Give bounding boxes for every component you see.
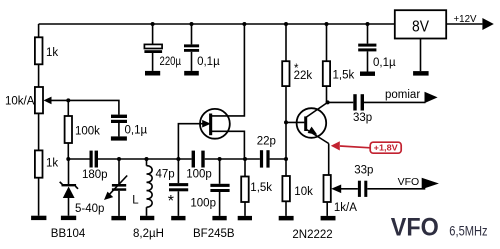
node trimmer junction [117, 157, 121, 161]
node 100p shunt junction [218, 157, 222, 161]
svg-text:1k/A: 1k/A [334, 202, 357, 214]
svg-text:22p: 22p [257, 136, 276, 148]
wire resonator line seg4 [270, 158, 286, 160]
svg-text:1k: 1k [46, 47, 58, 59]
capacitor C 100p (shunt) [190, 159, 229, 216]
node rail drain [242, 22, 246, 26]
wire VFO out [367, 188, 425, 190]
svg-text:VFO: VFO [398, 176, 420, 188]
wire resonator line seg3 [205, 158, 260, 160]
wire emitter down [328, 144, 330, 176]
wire 100k to resonator node [67, 143, 69, 159]
ground (1.5k source) [238, 216, 252, 220]
svg-text:100k: 100k [75, 126, 100, 138]
regulator U 8V [395, 10, 446, 71]
node rail 220µ [151, 22, 155, 26]
svg-text:100p: 100p [186, 169, 212, 181]
node rail 22k [284, 22, 288, 26]
svg-text:0,1µ: 0,1µ [373, 57, 396, 69]
wire top supply rail [39, 23, 395, 25]
capacitor C 0.1µ (rail right) [358, 24, 396, 72]
ground (220µ) [145, 71, 160, 76]
annotation +1,8V red [331, 141, 401, 153]
ground (trimmer) [111, 216, 126, 220]
capacitor C 33p (VFO out) [354, 165, 373, 197]
svg-text:*: * [168, 193, 174, 210]
arrow pomiar output [425, 92, 438, 103]
resistor R 1.5k (source) [241, 159, 272, 216]
wire pot to lower 1k [38, 113, 40, 150]
ground (10k) [279, 216, 294, 221]
node rail 0.1µ right [366, 22, 370, 26]
wire wiper to 100k [67, 100, 69, 116]
svg-text:33p: 33p [353, 112, 372, 124]
wire base [286, 121, 304, 123]
svg-text:1,5k: 1,5k [333, 70, 355, 82]
capacitor C 100p (series) [186, 151, 212, 181]
wire lower 1k to ground [38, 178, 40, 216]
svg-text:pomiar: pomiar [385, 89, 420, 101]
svg-text:0,1µ: 0,1µ [125, 125, 148, 137]
resistor R 10k [282, 176, 313, 216]
svg-text:+12V: +12V [454, 13, 477, 25]
node resonator left junction [66, 157, 70, 161]
svg-text:8V: 8V [412, 18, 429, 35]
wire base network vertical [285, 86, 287, 176]
ground (0.1µ bias) [111, 136, 127, 140]
JFET U BF245B [200, 24, 244, 159]
svg-text:180p: 180p [82, 169, 108, 181]
node 22p/base network junction [284, 157, 288, 161]
node rail 1.5k [325, 22, 329, 26]
ground (1k/A) [321, 216, 336, 221]
ground (inductor) [140, 216, 154, 220]
node base junction [284, 120, 288, 124]
resistor R 1.5k (collector) [323, 24, 355, 102]
capacitor C 33p (pomiar) [353, 94, 372, 124]
svg-text:10k/A: 10k/A [5, 96, 35, 108]
svg-text:1k: 1k [46, 158, 58, 170]
svg-text:+1,8V: +1,8V [374, 143, 398, 153]
svg-text:BF245B: BF245B [193, 228, 235, 240]
svg-text:10k: 10k [294, 186, 313, 198]
node collector junction [326, 100, 330, 104]
svg-text:22k: 22k [294, 70, 313, 82]
capacitor C 0.1µ (rail left) [184, 24, 220, 71]
svg-text:0,1µ: 0,1µ [197, 56, 220, 68]
wire 1k to pot [38, 64, 40, 87]
node wiper junction [66, 98, 70, 102]
svg-text:L: L [132, 195, 139, 207]
wire resonator line seg1 [68, 158, 89, 160]
svg-text:5-40p: 5-40p [75, 203, 104, 215]
svg-text:1,5k: 1,5k [250, 182, 272, 194]
arrow VFO output [422, 178, 439, 190]
wire pomiar line [328, 101, 354, 103]
potentiometer 1k/A [324, 175, 358, 216]
svg-text:BB104: BB104 [51, 228, 86, 240]
wire wiper line [52, 100, 119, 114]
svg-text:33p: 33p [354, 165, 373, 177]
wire pomiar line 2 [364, 101, 426, 103]
svg-text:VFO: VFO [391, 214, 439, 242]
capacitor C 180p [82, 151, 108, 181]
inductor L 8.2µH [132, 159, 164, 240]
capacitor C 47p [156, 159, 189, 216]
arrow +12V input [482, 18, 493, 30]
svg-text:220µ: 220µ [160, 56, 182, 68]
wire resonator line seg2 [98, 158, 192, 160]
node inductor junction [145, 157, 149, 161]
capacitor C 0.1µ (gate bias decoupling) [111, 115, 147, 137]
wire JFET gate [178, 124, 202, 159]
wire left chain top segment [38, 24, 40, 37]
wire +12V [446, 23, 482, 25]
ground (BB104) [61, 216, 76, 220]
ground (100p shunt) [212, 216, 226, 220]
svg-text:6,5MHz: 6,5MHz [449, 223, 487, 239]
resistor R 1k (top left) [35, 37, 58, 64]
svg-text:100p: 100p [190, 197, 216, 209]
ground (47p) [171, 216, 185, 220]
transistor Q 2N2222 [292, 102, 332, 241]
node rail 0.1µ left [190, 22, 194, 26]
svg-text:2N2222: 2N2222 [292, 229, 332, 241]
ground (8V regulator) [413, 71, 429, 76]
varactor diode BB104 [51, 159, 86, 240]
ground (left chain) [31, 216, 46, 220]
node gate/47p junction [176, 157, 180, 161]
trimmer capacitor C 5-40p [75, 159, 127, 216]
potentiometer 10k/A [5, 87, 52, 113]
resistor R 1k (lower left) [35, 150, 58, 177]
ground (0.1µ rail right) [360, 72, 375, 76]
node source/1.5k junction [243, 157, 247, 161]
resistor R 100k [65, 116, 101, 143]
resistor R 22k [282, 24, 312, 86]
svg-text:8,2µH: 8,2µH [133, 228, 164, 240]
capacitor C 220µ electrolytic [144, 24, 181, 71]
capacitor C 22p [257, 136, 276, 168]
svg-text:47p: 47p [156, 168, 175, 180]
wire wiper to 33p [341, 188, 358, 190]
ground (0.1µ rail left) [184, 71, 199, 76]
